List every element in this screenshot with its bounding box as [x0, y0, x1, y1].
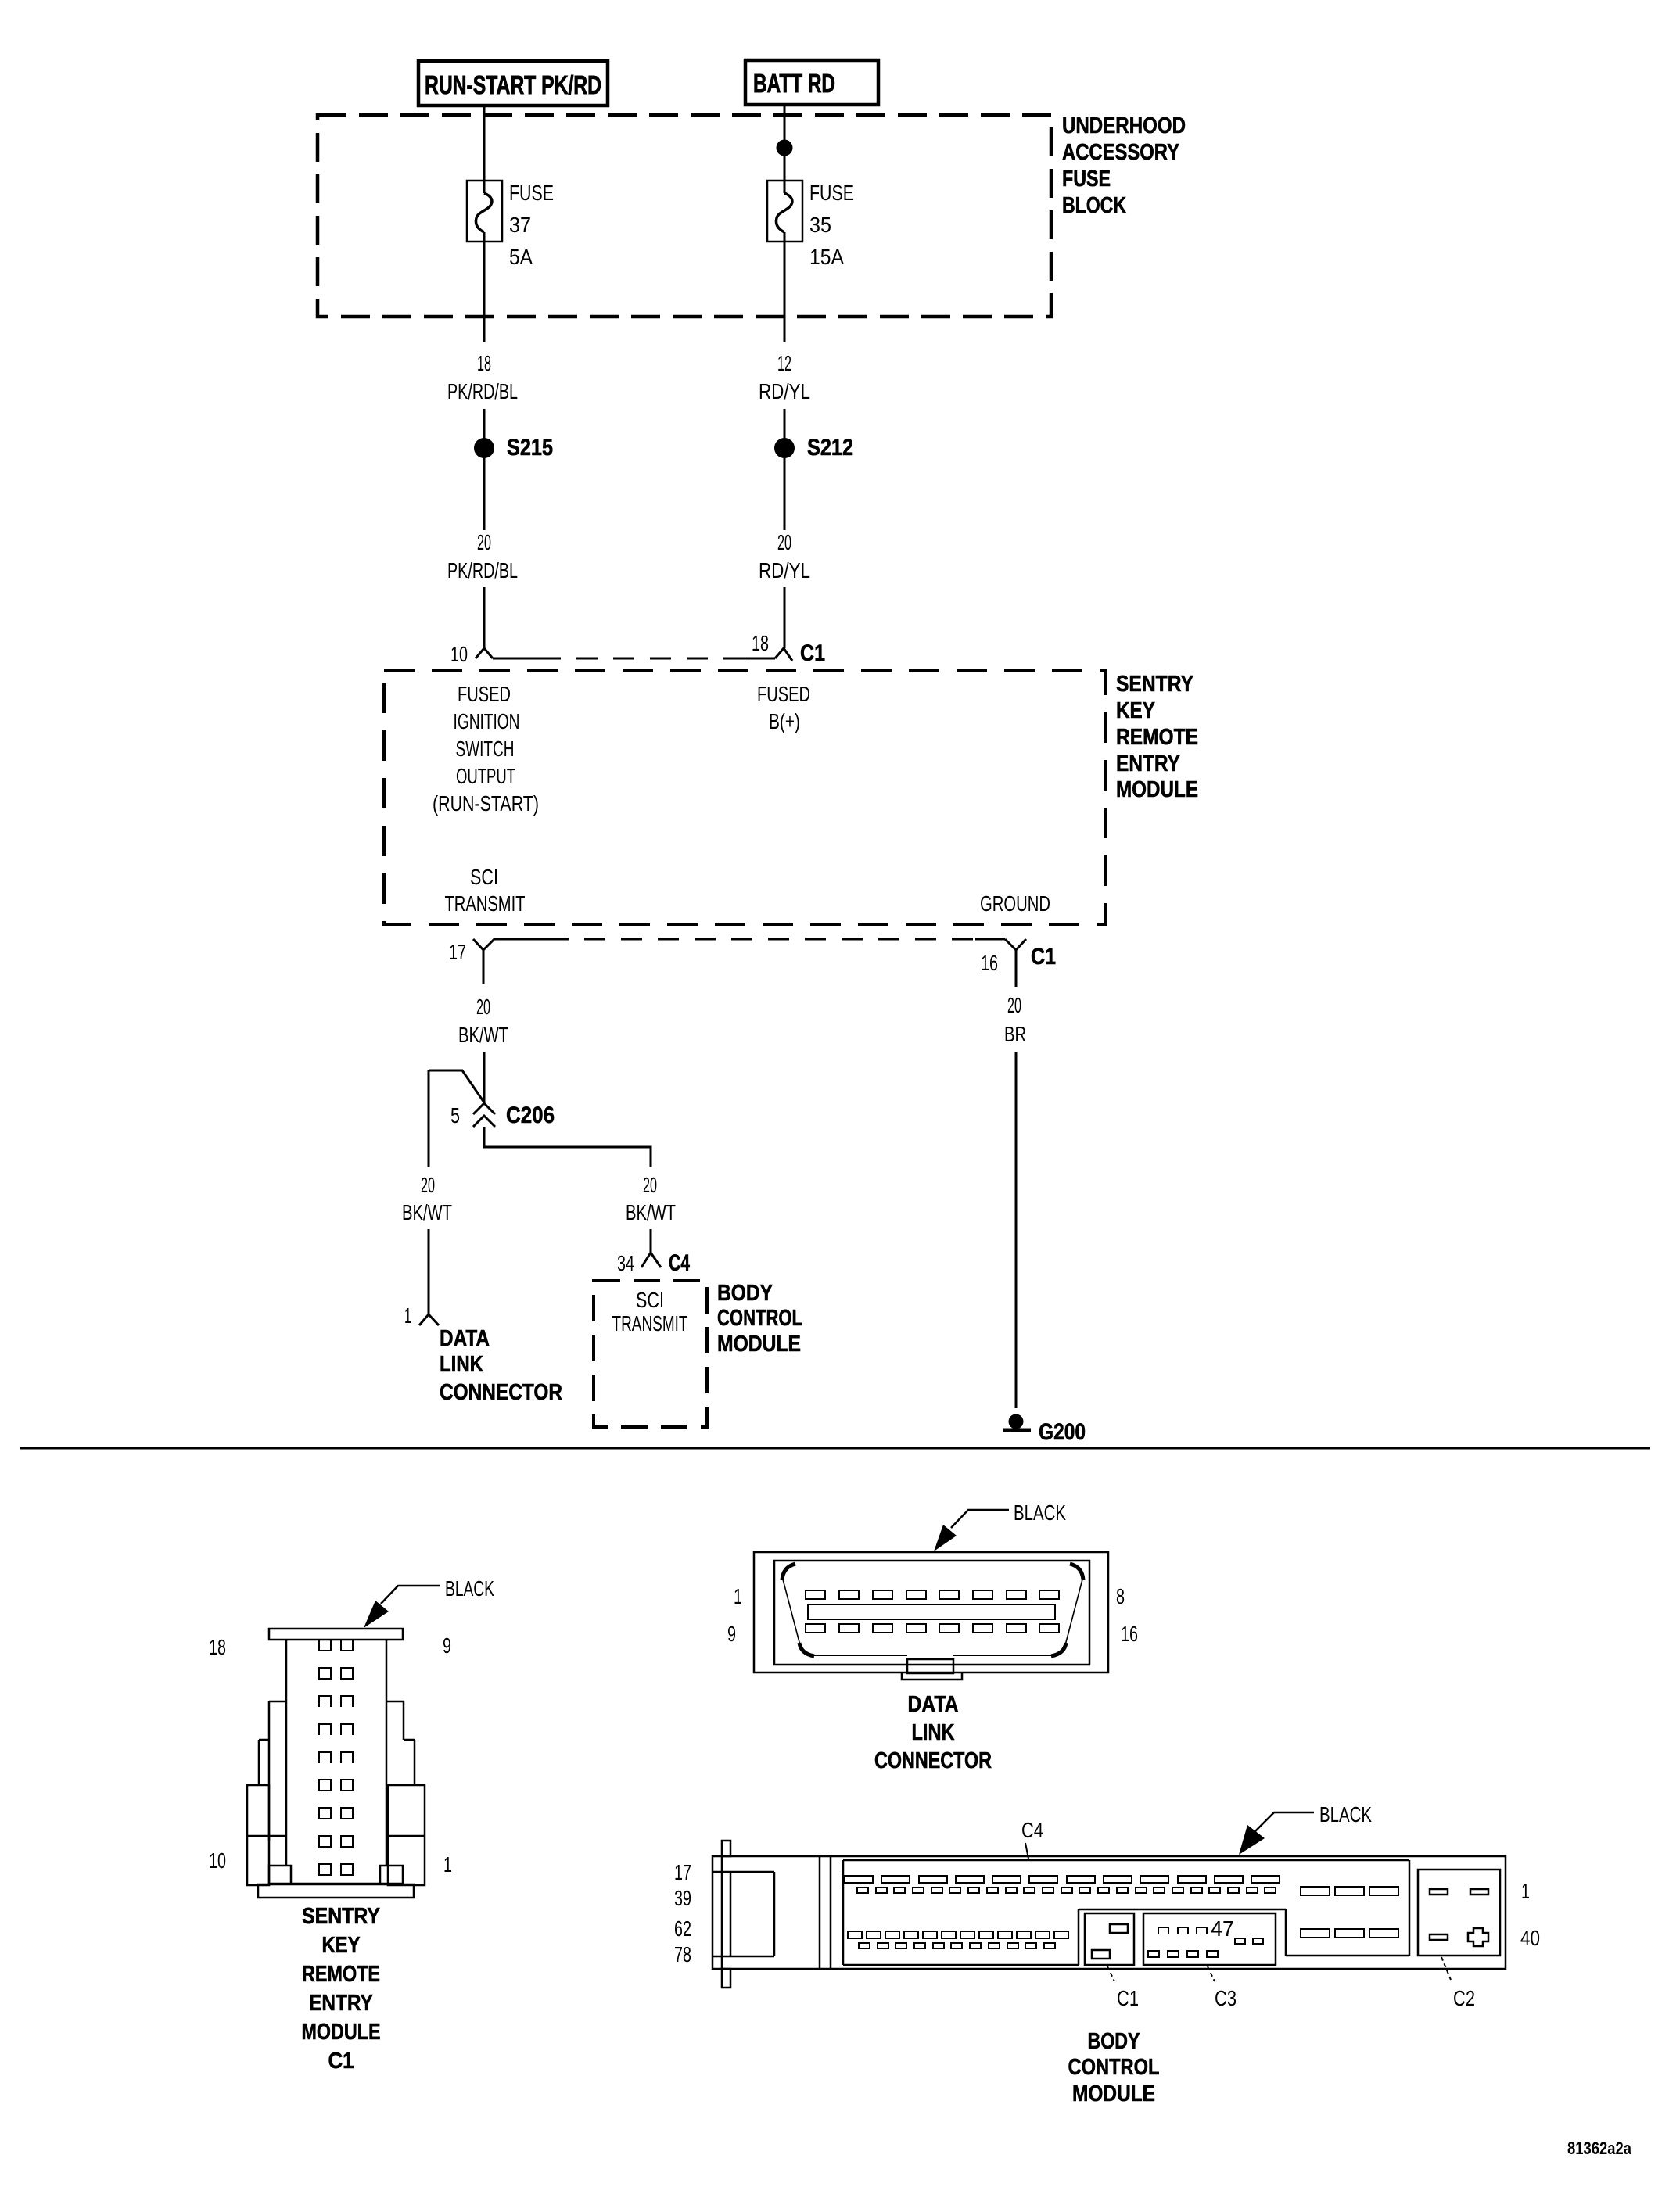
svg-text:RD/YL: RD/YL: [759, 558, 810, 583]
svg-text:BLACK: BLACK: [1014, 1500, 1066, 1525]
connector C1 dashed line (top): [493, 658, 540, 660]
node RUN-START PK/RD feed box: [418, 61, 608, 106]
svg-text:20: 20: [1007, 993, 1021, 1017]
BCM face: right middle dash trios: [1301, 1887, 1398, 1938]
node SCI TRANSMIT (BCM): [612, 1288, 688, 1335]
wire: [483, 587, 486, 648]
wire BATT feed into fuse 35: [784, 105, 786, 193]
caption BODY CONTROL MODULE: [1068, 2029, 1160, 2106]
BCM face: C2 cavity box: [1418, 1870, 1500, 1956]
svg-text:15A: 15A: [809, 245, 844, 269]
svg-text:1: 1: [734, 1584, 742, 1608]
wire label 18 PK/RD/BL: [447, 351, 518, 403]
BCM face: left mounting bracket: [712, 1841, 774, 1988]
svg-text:CONNECTOR: CONNECTOR: [874, 1748, 992, 1773]
svg-text:8: 8: [1116, 1584, 1125, 1608]
svg-text:FUSE: FUSE: [1062, 167, 1111, 192]
svg-text:SCI: SCI: [470, 865, 498, 889]
wire label 20 BK/WT (BCM branch): [626, 1173, 676, 1224]
svg-text:C3: C3: [1215, 1986, 1236, 2010]
svg-text:20: 20: [643, 1173, 657, 1197]
svg-text:18: 18: [477, 351, 491, 375]
svg-text:ENTRY: ENTRY: [309, 1991, 373, 2016]
svg-text:C4: C4: [669, 1250, 690, 1276]
svg-text:C4: C4: [1021, 1818, 1043, 1842]
svg-text:TRANSMIT: TRANSMIT: [445, 891, 526, 916]
DLC face: keyway trapezoid: [782, 1564, 1083, 1656]
ground G200: [1003, 1414, 1086, 1446]
connector DLC pin 1: [404, 1303, 439, 1328]
BCM face: C1 cavity box: [1085, 1913, 1134, 1965]
svg-text:CONNECTOR: CONNECTOR: [440, 1380, 562, 1405]
svg-text:C1: C1: [800, 640, 825, 666]
svg-text:BATT RD: BATT RD: [753, 69, 835, 98]
svg-text:81362a2a: 81362a2a: [1567, 2139, 1632, 2158]
svg-text:BK/WT: BK/WT: [626, 1200, 676, 1224]
BCM face: lower terminal row (medium): [848, 1931, 1068, 1938]
svg-text:10: 10: [450, 642, 468, 666]
wire branch to DLC (horizontal + diagonal): [429, 1070, 484, 1102]
BCM face: end wall double line: [820, 1856, 831, 1969]
splice S215: [474, 435, 553, 461]
svg-text:FUSED: FUSED: [757, 682, 810, 706]
splice dot under BATT RD: [777, 140, 793, 156]
wire fuse 35 output: [784, 232, 786, 342]
svg-text:SENTRY: SENTRY: [1116, 672, 1193, 697]
svg-text:BLOCK: BLOCK: [1062, 193, 1126, 218]
svg-text:TRANSMIT: TRANSMIT: [612, 1311, 688, 1335]
svg-text:BLACK: BLACK: [445, 1576, 494, 1601]
svg-text:BODY: BODY: [717, 1281, 773, 1306]
wire label 20 BR (pin16): [1004, 993, 1026, 1046]
svg-text:10: 10: [209, 1848, 226, 1873]
svg-text:B(+): B(+): [769, 709, 800, 733]
caption DATA LINK CONNECTOR: [874, 1692, 992, 1773]
svg-text:12: 12: [777, 351, 791, 375]
wire label 20 BK/WT (pin17): [458, 995, 508, 1047]
svg-text:(RUN-START): (RUN-START): [433, 791, 539, 816]
DLC face: inner shroud: [774, 1561, 1089, 1665]
caption SENTRY KEY REMOTE ENTRY MODULE C1: [302, 1904, 381, 2074]
node FUSED B(+): [757, 682, 810, 733]
BCM face: C4 terminal row (small): [857, 1888, 1276, 1893]
svg-text:DATA: DATA: [908, 1692, 959, 1717]
svg-text:18: 18: [209, 1635, 226, 1659]
wire label 12 RD/YL: [759, 351, 810, 403]
wire: [483, 409, 486, 439]
svg-text:PK/RD/BL: PK/RD/BL: [447, 558, 518, 583]
wire ground BR to G200: [1015, 1052, 1018, 1408]
splice S212: [774, 435, 853, 461]
wire: [784, 587, 786, 648]
svg-text:C206: C206: [506, 1102, 555, 1128]
wire to BCM pin 34: [650, 1229, 652, 1253]
svg-text:FUSED: FUSED: [458, 682, 511, 706]
underhood accessory fuse block (dashed box): [318, 115, 1051, 317]
BCM face: C4 terminal row (large): [845, 1876, 1280, 1883]
svg-text:RUN-START PK/RD: RUN-START PK/RD: [425, 70, 601, 99]
svg-text:BLACK: BLACK: [1319, 1802, 1372, 1827]
wire to DLC pin 1: [428, 1229, 430, 1314]
sentry key remote entry module (dashed box): [384, 671, 1106, 924]
svg-text:39: 39: [674, 1886, 691, 1910]
svg-text:MODULE: MODULE: [1072, 2081, 1155, 2106]
svg-text:16: 16: [981, 951, 998, 975]
svg-text:ACCESSORY: ACCESSORY: [1062, 140, 1179, 165]
wire RUN-START feed into fuse 37: [483, 106, 486, 193]
svg-text:17: 17: [449, 940, 466, 964]
svg-text:5: 5: [450, 1103, 460, 1128]
wire label 20 BK/WT (DLC branch): [402, 1173, 452, 1224]
wire fuse 37 output: [483, 232, 486, 342]
svg-text:1: 1: [1521, 1879, 1530, 1903]
BCM face: BLACK callout: [1239, 1802, 1372, 1855]
svg-text:RD/YL: RD/YL: [759, 379, 810, 403]
BCM face: C1 leader and label: [1107, 1966, 1139, 2010]
separator line: [20, 1447, 1650, 1450]
svg-text:BR: BR: [1004, 1022, 1026, 1046]
connector C1 pin 10 (module top): [450, 642, 493, 666]
DLC face: BLACK callout: [934, 1500, 1066, 1551]
BCM face: C3 cavities and 47 label: [1148, 1916, 1263, 1957]
svg-text:LINK: LINK: [440, 1352, 483, 1377]
svg-text:SCI: SCI: [636, 1288, 664, 1312]
svg-text:BK/WT: BK/WT: [458, 1023, 508, 1047]
svg-text:DATA: DATA: [440, 1326, 490, 1351]
svg-text:78: 78: [674, 1942, 691, 1966]
DLC face: pin slots row 9-16: [806, 1624, 1059, 1633]
svg-text:1: 1: [443, 1852, 452, 1877]
node BATT RD feed box: [745, 60, 878, 105]
svg-text:C2: C2: [1453, 1986, 1475, 2010]
connector C4 pin 34: [617, 1250, 690, 1276]
BCM face: lower terminal row (small): [859, 1943, 1055, 1948]
wire: [784, 457, 786, 530]
svg-text:KEY: KEY: [322, 1933, 361, 1958]
wire C206 to BCM (down, right, down): [484, 1127, 651, 1167]
connector C1 pin 18 (module top): [752, 631, 825, 666]
svg-text:35: 35: [809, 213, 831, 237]
BCM face: C3 leader and label: [1208, 1966, 1236, 2010]
svg-text:GROUND: GROUND: [980, 891, 1050, 916]
svg-text:34: 34: [617, 1251, 634, 1275]
wire DLC branch vertical: [428, 1070, 430, 1167]
label DATA LINK CONNECTOR: [440, 1326, 562, 1405]
DLC face: center bar: [808, 1604, 1055, 1619]
wire: [483, 457, 486, 530]
svg-text:C1: C1: [328, 2049, 354, 2074]
SKREEM C1 connector face: housing outline: [247, 1629, 425, 1898]
svg-text:BK/WT: BK/WT: [402, 1200, 452, 1224]
svg-text:KEY: KEY: [1116, 698, 1155, 723]
DLC face: outer housing: [754, 1552, 1108, 1672]
svg-text:MODULE: MODULE: [302, 2020, 381, 2045]
svg-text:MODULE: MODULE: [717, 1332, 801, 1357]
svg-text:C1: C1: [1031, 944, 1056, 970]
svg-text:40: 40: [1520, 1926, 1540, 1950]
svg-text:S212: S212: [807, 435, 853, 461]
svg-text:SENTRY: SENTRY: [302, 1904, 380, 1929]
connector C1 dashed line (bottom): [494, 938, 547, 941]
DLC face: bottom latch tab: [902, 1659, 962, 1680]
svg-text:17: 17: [674, 1860, 691, 1884]
svg-text:20: 20: [421, 1173, 435, 1197]
svg-text:REMOTE: REMOTE: [1116, 725, 1198, 750]
svg-text:5A: 5A: [509, 245, 533, 269]
svg-text:FUSE: FUSE: [509, 181, 554, 205]
svg-text:62: 62: [674, 1916, 691, 1941]
svg-text:20: 20: [777, 530, 791, 554]
DLC face: pin slots row 1-8: [806, 1590, 1059, 1599]
svg-text:OUTPUT: OUTPUT: [456, 764, 515, 788]
svg-text:20: 20: [476, 995, 490, 1019]
svg-text:1: 1: [404, 1303, 411, 1328]
svg-text:9: 9: [443, 1633, 451, 1658]
svg-text:20: 20: [477, 530, 491, 554]
svg-text:FUSE: FUSE: [809, 181, 854, 205]
node SCI TRANSMIT (module): [445, 865, 526, 916]
body control module (dashed box): [594, 1281, 707, 1427]
label SENTRY KEY REMOTE ENTRY MODULE: [1116, 672, 1198, 802]
node FUSED IGNITION SWITCH OUTPUT (RUN-START): [433, 682, 539, 816]
wire label 20 RD/YL: [759, 530, 810, 583]
svg-text:CONTROL: CONTROL: [1068, 2055, 1160, 2080]
svg-text:ENTRY: ENTRY: [1116, 751, 1180, 776]
svg-text:18: 18: [752, 631, 769, 655]
label BODY CONTROL MODULE: [717, 1281, 802, 1357]
BCM face: C3 cavity box: [1143, 1913, 1276, 1965]
svg-text:47: 47: [1211, 1916, 1234, 1941]
wire: [784, 409, 786, 439]
svg-text:9: 9: [727, 1622, 736, 1646]
svg-text:37: 37: [509, 213, 531, 237]
svg-text:UNDERHOOD: UNDERHOOD: [1062, 113, 1186, 138]
wire label 20 PK/RD/BL: [447, 530, 518, 583]
connector C206 pin 5: [450, 1102, 555, 1128]
SKREEM C1 connector face: terminal cavities: [319, 1640, 353, 1875]
svg-text:REMOTE: REMOTE: [302, 1962, 380, 1987]
svg-text:PK/RD/BL: PK/RD/BL: [447, 379, 518, 403]
svg-text:SWITCH: SWITCH: [456, 737, 515, 761]
svg-text:BODY: BODY: [1088, 2029, 1140, 2054]
fuse F35 15A: [767, 181, 854, 269]
connector C1 pin 17 (module bottom): [449, 939, 494, 984]
BCM face: C4 label with tick: [1021, 1818, 1043, 1859]
connector C1 pin 16 (module bottom): [981, 939, 1056, 987]
SKREEM C1 connector face: BLACK callout: [364, 1576, 494, 1628]
label UNDERHOOD ACCESSORY FUSE BLOCK: [1062, 113, 1186, 218]
BCM face: pin field outline: [843, 1860, 1409, 1965]
BCM face: outer housing: [712, 1856, 1506, 1969]
svg-text:IGNITION: IGNITION: [454, 709, 520, 733]
wire SCI transmit down to C206: [483, 1052, 486, 1104]
svg-text:CONTROL: CONTROL: [717, 1306, 802, 1331]
BCM face: C2 leader and label: [1441, 1957, 1475, 2010]
svg-text:C1: C1: [1117, 1986, 1139, 2010]
fuse F37 5A: [467, 181, 554, 269]
svg-text:S215: S215: [507, 435, 553, 461]
svg-text:LINK: LINK: [912, 1720, 955, 1745]
svg-text:G200: G200: [1039, 1419, 1086, 1445]
svg-text:MODULE: MODULE: [1116, 777, 1198, 802]
svg-text:16: 16: [1121, 1622, 1138, 1646]
